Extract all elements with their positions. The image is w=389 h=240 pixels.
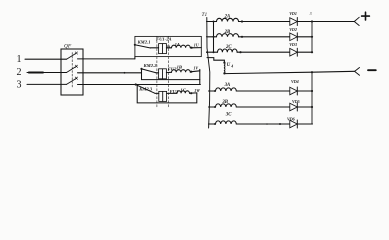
- svg-text:2A: 2A: [165, 46, 171, 50]
- svg-text:VD3: VD3: [289, 42, 297, 47]
- svg-text:3A: 3A: [224, 83, 231, 88]
- svg-text:U: U: [227, 63, 231, 68]
- svg-text:FU3: FU3: [170, 89, 179, 94]
- svg-text:3: 3: [17, 79, 22, 90]
- svg-text:KM2.1: KM2.1: [137, 39, 151, 44]
- svg-text:2C: 2C: [225, 45, 232, 50]
- svg-text:VD2: VD2: [289, 27, 297, 32]
- svg-text:1B: 1B: [177, 64, 182, 69]
- svg-text:2B: 2B: [224, 30, 231, 35]
- svg-text:4: 4: [230, 64, 233, 68]
- svg-text:VD4: VD4: [291, 79, 299, 84]
- svg-text:1: 1: [17, 54, 22, 65]
- svg-text:QF: QF: [64, 44, 72, 50]
- svg-text:1A: 1A: [175, 42, 180, 47]
- svg-text:VD5: VD5: [292, 99, 300, 104]
- svg-text:VD6: VD6: [287, 117, 296, 122]
- svg-text:T1: T1: [202, 12, 208, 18]
- svg-text:3C: 3C: [225, 113, 232, 118]
- svg-text:KM2.2: KM2.2: [143, 63, 158, 68]
- svg-text:VD1: VD1: [289, 11, 297, 16]
- svg-text:KM2.3: KM2.3: [138, 86, 153, 91]
- svg-text:2: 2: [17, 67, 22, 78]
- svg-text:1W: 1W: [194, 88, 200, 93]
- svg-text:2A: 2A: [224, 15, 231, 20]
- svg-text:1C: 1C: [180, 88, 186, 93]
- svg-text:3B: 3B: [221, 100, 228, 105]
- svg-text:FU1-2A: FU1-2A: [156, 37, 172, 42]
- svg-text:1U: 1U: [194, 43, 200, 48]
- svg-text:1V: 1V: [193, 66, 198, 71]
- svg-text:3: 3: [310, 12, 312, 16]
